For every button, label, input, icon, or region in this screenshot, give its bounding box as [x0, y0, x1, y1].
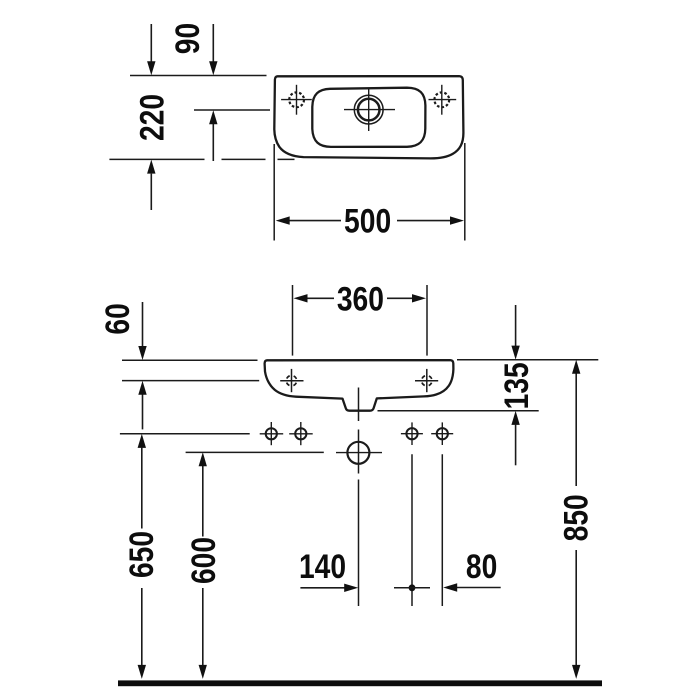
- svg-text:850: 850: [557, 494, 595, 541]
- ref line tap level y=380.6: [122, 380, 259, 382]
- svg-text:90: 90: [169, 23, 207, 54]
- drain center line upper: [358, 388, 360, 422]
- dim 500 right extension line: [464, 143, 466, 241]
- svg-text:220: 220: [133, 94, 171, 141]
- ref line drain level y=452.4: [186, 451, 324, 453]
- dim 60 upper arrow (outside, down): [142, 302, 144, 347]
- dim 650 line lower part with down arrow: [141, 588, 143, 666]
- drain front circle: [347, 442, 369, 464]
- inner basin rim: [312, 88, 425, 147]
- dim 650 line upper part with up arrow: [141, 448, 143, 529]
- drain front crosshair: [336, 452, 382, 454]
- ref line wall top right y=359.6: [457, 359, 598, 361]
- svg-text:140: 140: [299, 548, 346, 586]
- dim 220 upper arrow (outside, pointing down): [150, 24, 152, 62]
- right tap front crosshair: [415, 380, 438, 382]
- washbasin plan outline: [274, 76, 463, 158]
- dim 360 right extension: [426, 285, 428, 356]
- dim 500 line with arrows: [289, 220, 341, 222]
- dim 850 line lower part with down arrow: [575, 550, 577, 666]
- dim ref line tap axis y=110: [194, 109, 270, 111]
- short cross line through dot: [394, 587, 430, 589]
- floor line: [118, 680, 602, 686]
- hole extension line x=442.3: [441, 454, 443, 606]
- dim ref line top (rear edge) y=75.5: [130, 75, 267, 77]
- ref line fixing holes y=433.8: [120, 433, 250, 435]
- drain crosshair vertical: [368, 89, 370, 131]
- svg-text:135: 135: [498, 362, 536, 409]
- ref line wall top left y=360.2: [122, 359, 258, 361]
- dim 360 line with arrows: [306, 297, 334, 299]
- dim 90 lower arrow (outside, pointing up): [212, 124, 214, 161]
- dim 90 upper arrow (outside, pointing down): [212, 24, 214, 62]
- dim reference dot at 140/80 junction: [409, 584, 416, 591]
- dim 360 left extension: [292, 285, 294, 356]
- fixing hole far-left: [266, 428, 277, 439]
- svg-text:80: 80: [466, 548, 497, 586]
- svg-text:360: 360: [337, 280, 384, 318]
- right tap hole dashed circle: [434, 92, 449, 107]
- ref line outlet bottom y=410.8: [378, 410, 539, 412]
- hole extension line x=412: [411, 454, 413, 606]
- dim 140 arrow (outside, pointing right): [300, 587, 345, 589]
- dim ref line front edge y=159.4: [109, 158, 204, 160]
- left tap front dashed circle: [286, 376, 296, 386]
- fixing hole mid-left: [295, 428, 306, 439]
- dim 600 line upper part with up arrow: [202, 466, 204, 537]
- left tap front crosshair: [280, 380, 303, 382]
- dim 850 line upper part with up arrow: [575, 373, 577, 486]
- drain center line lower: [358, 430, 360, 474]
- drain outer circle: [354, 95, 383, 124]
- dim 135 lower arrow (outside, up): [515, 425, 517, 466]
- svg-text:500: 500: [344, 202, 391, 240]
- washbasin front outline with siphon outlet: [265, 360, 454, 411]
- fixing hole far-right: [437, 428, 448, 439]
- svg-text:60: 60: [99, 303, 137, 334]
- dim 500 left extension line: [273, 144, 275, 241]
- right tap front dashed circle: [422, 376, 432, 386]
- right tap hole crosshair: [429, 99, 457, 101]
- drain inner circle: [358, 99, 380, 121]
- dim 220 lower arrow (outside, pointing up): [150, 174, 152, 210]
- fixing hole mid-right: [406, 428, 417, 439]
- svg-text:650: 650: [123, 531, 161, 578]
- dim 600 line lower part with down arrow: [202, 588, 204, 666]
- dim 135 upper arrow (outside, down): [515, 305, 517, 346]
- svg-text:600: 600: [185, 537, 223, 584]
- left tap hole crosshair: [281, 99, 312, 101]
- left tap hole dashed circle: [289, 92, 304, 107]
- dim 60 lower arrow (outside, up): [142, 394, 144, 429]
- drain crosshair horizontal: [344, 109, 395, 111]
- drain center line lowest: [358, 480, 360, 607]
- dim 80 arrow (outside, pointing left): [457, 587, 501, 589]
